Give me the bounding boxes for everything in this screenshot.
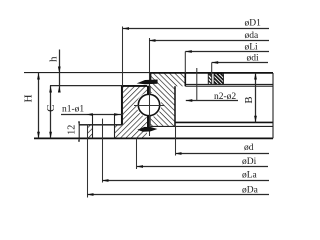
svg-text:B: B [244, 97, 255, 104]
gear root line + ØDa extension [87, 125, 89, 198]
dimension B [244, 73, 257, 123]
svg-text:øDi: øDi [242, 157, 257, 167]
dimension H [23, 73, 40, 139]
dimension Ødi [212, 54, 268, 85]
inner ring left face + extension up [122, 27, 124, 125]
bolt hole left wall [92, 115, 94, 139]
outer ring bottom face and lower lines [175, 121, 273, 123]
bolt hole right wall [114, 115, 116, 139]
ball centerline horizontal [134, 105, 165, 107]
dimension ØDa [87, 185, 269, 196]
dimension Ød [175, 126, 269, 155]
upper seal [137, 80, 158, 85]
bolt hole centerline + ØLa extension [102, 119, 104, 183]
ball centerline vertical [149, 38, 151, 136]
label n1-Ø1 [61, 104, 123, 116]
dimension ØDi [137, 138, 269, 169]
svg-text:ød: ød [244, 143, 254, 153]
top face outer ring + top reference line y73 [24, 72, 273, 74]
dimension h [48, 50, 61, 93]
dimension Øda [149, 31, 269, 42]
lower gap slot [147, 116, 151, 128]
svg-text:øLi: øLi [245, 43, 259, 53]
outer ring dense hatch square [214, 74, 224, 85]
plate bottom double lines [185, 83, 273, 85]
svg-text:øda: øda [245, 31, 260, 41]
inner ring top face + reference line y86 [50, 85, 147, 87]
svg-text:C: C [45, 105, 57, 112]
ball [138, 94, 159, 115]
svg-text:ødi: ødi [247, 54, 260, 64]
svg-text:øD1: øD1 [245, 18, 262, 28]
svg-text:h: h [48, 56, 60, 62]
lower seal [137, 127, 157, 132]
raceway white annulus [137, 93, 162, 118]
upper gap slot [147, 86, 151, 95]
outer ring right face upper (bore Li) [184, 73, 186, 86]
svg-text:n1-ø1: n1-ø1 [62, 104, 84, 114]
right edge vertical [272, 73, 274, 138]
dimension 12 flange thickness [67, 121, 81, 141]
dimension C [45, 86, 57, 139]
inner ring hatched body [88, 86, 147, 139]
svg-text:12: 12 [67, 125, 78, 135]
flange top [79, 124, 122, 126]
dimension ØLa [102, 171, 269, 182]
svg-text:øDa: øDa [242, 185, 259, 195]
dimension ØD1 [123, 18, 270, 30]
outer ring left face above seal [150, 73, 152, 80]
dimension ØLi [185, 43, 269, 74]
svg-text:øLa: øLa [242, 171, 258, 181]
outer ring right face lower (d) [174, 86, 176, 126]
bottom face line [34, 137, 273, 139]
label n2-Ø2 [186, 68, 238, 102]
flange/gear left edge [78, 122, 80, 140]
outer ring hatched body [151, 73, 186, 126]
outer ring flange hatch strip [208, 73, 211, 84]
svg-text:H: H [23, 94, 35, 102]
